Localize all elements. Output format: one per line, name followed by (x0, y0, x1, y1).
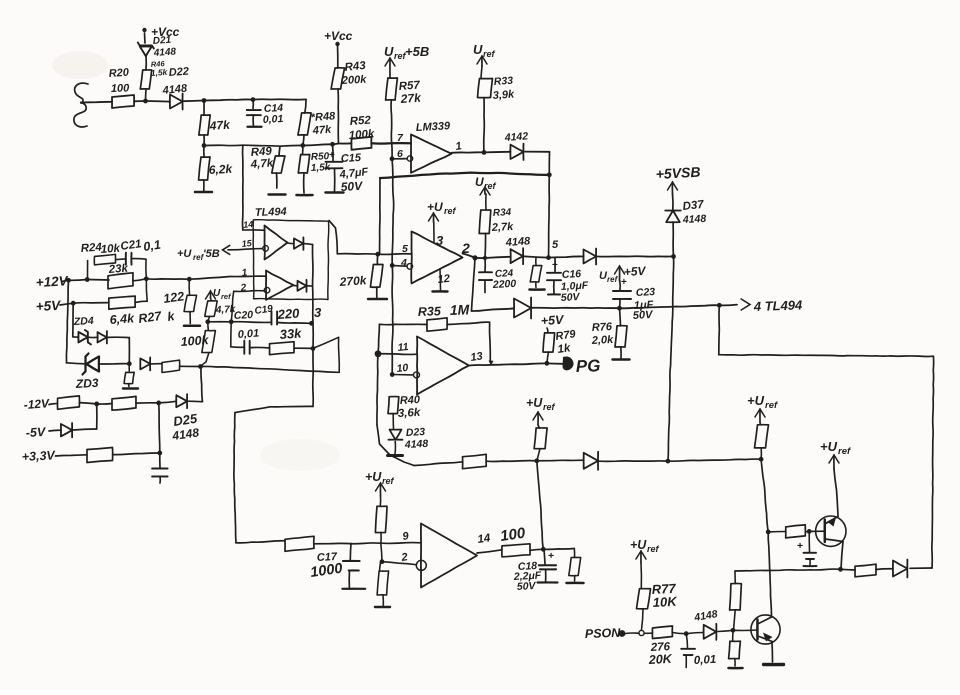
diode D pson (704, 625, 717, 639)
wire pin3 vertical (312, 245, 314, 323)
wire Q1 emitter down (841, 542, 843, 570)
capacitor C17 (349, 543, 352, 559)
wire LM339 out (452, 151, 485, 154)
arrow +Uref R77 (640, 551, 642, 563)
wire D21 to R46 (145, 56, 147, 70)
node pin2row4 junction (380, 559, 385, 564)
svg-text:4: 4 (400, 257, 407, 269)
node C14 junction (251, 97, 256, 102)
node C23 junction (617, 306, 622, 311)
wire ZD3 row (67, 363, 85, 364)
wire blob down (377, 354, 378, 425)
wire R77 down (642, 609, 644, 630)
wire pin1 (189, 276, 266, 279)
svg-text:2200: 2200 (492, 278, 517, 291)
capacitor C20 (243, 341, 245, 354)
svg-text:6,2k: 6,2k (208, 162, 233, 177)
wire y173 wavy (380, 173, 549, 178)
resistor -12V a (57, 396, 79, 409)
wire corner down ZD4 (128, 338, 130, 364)
capacitor bottom rail (159, 453, 161, 468)
diode internal 1 (288, 242, 295, 245)
resistor R52 (351, 137, 371, 150)
resistor R35 (427, 318, 447, 331)
svg-text:+Vcc: +Vcc (324, 29, 353, 43)
svg-text:100: 100 (111, 82, 131, 95)
wire row 47k to R49 (204, 144, 243, 146)
wire U5 out (477, 550, 502, 553)
diode D23 (390, 430, 402, 440)
ground below Q2base (729, 667, 743, 670)
resistor R77 (637, 589, 651, 609)
svg-text:2: 2 (461, 240, 470, 256)
wire pin3 vert lower (312, 323, 314, 348)
node 23k junction (144, 276, 149, 281)
svg-text:ref: ref (483, 49, 496, 59)
pin15 circle (263, 246, 269, 252)
resistor pullup9 (375, 506, 387, 532)
wire x761 down (761, 459, 768, 532)
pin 6 circle (407, 156, 412, 161)
diode D22 (170, 95, 183, 109)
wire pin13 out (469, 363, 547, 365)
wire riser x339 (338, 337, 341, 372)
svg-text:5: 5 (402, 243, 408, 255)
svg-text:+5V: +5V (540, 313, 565, 328)
svg-text:4148: 4148 (404, 438, 429, 451)
node base junction (807, 529, 812, 534)
svg-text:U: U (475, 175, 484, 189)
svg-text:ref: ref (607, 275, 619, 284)
ground C15 (326, 191, 344, 194)
wire D23 gnd (394, 442, 396, 454)
svg-text:-12V: -12V (23, 396, 50, 412)
resistor 100k (207, 322, 210, 331)
wire pin14 (243, 229, 265, 231)
svg-text:4 TL494: 4 TL494 (753, 297, 804, 314)
svg-text:122: 122 (162, 289, 185, 306)
wire loop to diode (910, 567, 932, 569)
ground D23 (388, 454, 403, 457)
capacitor C24 (484, 258, 486, 272)
wire pin3 to x235 (270, 405, 313, 408)
svg-text:ref: ref (838, 446, 851, 457)
svg-text:50V: 50V (340, 179, 363, 194)
wire Q1 collector up (834, 469, 838, 517)
diode D21 (138, 43, 154, 49)
node Q1 emitter junction (838, 567, 843, 572)
svg-text:200k: 200k (341, 74, 368, 87)
svg-text:50V: 50V (633, 309, 655, 322)
wire base (809, 530, 825, 532)
wire R35 left (379, 323, 427, 325)
ground R49 (269, 193, 286, 195)
ground 1k node5 (530, 288, 545, 291)
op-amp U2A LM339 (411, 135, 452, 173)
svg-text:D21: D21 (152, 35, 172, 47)
svg-text:33k: 33k (279, 325, 302, 342)
wire pullup to row543 (380, 533, 382, 544)
wire int1 out (304, 243, 313, 246)
transistor Q2 (751, 615, 780, 644)
resistor R48 (298, 113, 311, 135)
wire diag to 33k node (313, 337, 339, 348)
svg-text:10k: 10k (100, 243, 121, 256)
svg-text:ref: ref (221, 292, 232, 301)
svg-text:4142: 4142 (503, 130, 528, 144)
wire out2 down (472, 258, 476, 311)
svg-text:20K: 20K (647, 652, 673, 667)
wire pin11 (378, 353, 417, 356)
pin10 circle (414, 372, 420, 378)
arrow +Uref Q1 (833, 455, 835, 469)
wire corner up -5V (96, 404, 98, 429)
wire R57 to pin6 node (391, 100, 392, 159)
wire C20 to 33k (250, 346, 269, 349)
svg-text:50V: 50V (561, 291, 581, 304)
node pin3 junction (309, 321, 314, 326)
wire loop right (719, 355, 934, 357)
wire res to gnd (574, 576, 576, 582)
svg-text:11: 11 (397, 341, 409, 354)
ground 6,2k (195, 191, 212, 194)
resistor R46 (140, 70, 151, 89)
wire +3,3V (55, 455, 87, 456)
resistor R33 (478, 79, 493, 98)
svg-text:14: 14 (243, 219, 254, 230)
svg-text:2,0k: 2,0k (591, 334, 615, 347)
svg-text:C20: C20 (234, 309, 254, 322)
wire res to 100k node (180, 365, 201, 367)
wire int2 out (307, 285, 312, 287)
svg-text:+5V: +5V (623, 264, 646, 279)
wire vert461 down (537, 461, 544, 550)
resistor 100 out (502, 544, 530, 557)
wire curve to row461 (377, 425, 414, 466)
diode after ZD3 node (140, 358, 150, 369)
svg-text:3: 3 (314, 305, 322, 320)
wire U3 out (463, 254, 476, 258)
capacitor C19 (270, 312, 272, 325)
svg-text:0,01: 0,01 (237, 328, 259, 341)
svg-text:+: + (797, 540, 803, 552)
svg-text:+U: +U (630, 538, 647, 552)
wire curve to res461 (414, 462, 463, 466)
arrow +Uref U3 (433, 213, 435, 222)
wire pin5 row (337, 253, 378, 256)
wire pin6 (392, 158, 407, 160)
ground R50 (297, 194, 313, 197)
wire n2 to D25 (159, 401, 177, 403)
node A junction (143, 99, 148, 104)
svg-text:R76: R76 (592, 321, 614, 334)
arrow +Uref mid (379, 483, 381, 496)
wire -5V (49, 429, 61, 432)
node +5V junction (71, 301, 76, 306)
svg-text:PSON: PSON (585, 626, 622, 641)
diode D-mid 4148 (511, 249, 524, 263)
wire right riser (145, 259, 147, 279)
wire C14 node to R48 corner (253, 98, 306, 100)
wire loop down1 (718, 305, 721, 354)
svg-text:0,01: 0,01 (263, 113, 284, 126)
wire D308 to C23 (532, 307, 620, 309)
wire C23 to loop node (620, 305, 720, 308)
resistor Q1 base (786, 525, 806, 538)
resistor R24 (94, 254, 115, 265)
resistor 6,2k (203, 146, 205, 158)
svg-text:ref: ref (543, 402, 556, 412)
wire D25 up (189, 400, 203, 403)
diode ZD4b (98, 332, 107, 342)
svg-text:27k: 27k (399, 91, 422, 107)
component box below node (128, 364, 130, 373)
wire R20 to node (134, 100, 146, 102)
wire res b to n2 (136, 402, 159, 404)
node R48 junction (300, 143, 305, 148)
wire row308 left (472, 308, 515, 311)
wire res100 to C18 (530, 549, 543, 550)
wire +Vcc2 to R43 (337, 44, 339, 68)
wire to arrow 4TL494 (719, 304, 737, 307)
wire -12V (49, 403, 58, 406)
wire Uref to R34 (485, 194, 487, 210)
wire uref to res (379, 496, 381, 506)
node cap001 junction (684, 631, 689, 636)
node 47k junction (202, 143, 207, 148)
resistor +3,3V (87, 448, 113, 463)
svg-text:4148: 4148 (682, 213, 707, 226)
svg-text:U: U (384, 44, 394, 59)
wire 5VSB to D37 (672, 194, 674, 210)
resistor R-loop (855, 564, 876, 577)
wire row569 (735, 569, 841, 571)
svg-text:R43: R43 (344, 60, 367, 74)
wire 6,4k right (135, 301, 147, 302)
svg-text:14: 14 (477, 532, 492, 546)
svg-text:ref: ref (444, 206, 457, 216)
node D37 junction (671, 254, 676, 259)
node PSON (619, 630, 626, 637)
pson circle (639, 630, 644, 635)
resistor R57 (386, 78, 398, 100)
diode D37 (666, 211, 680, 223)
svg-text:LM339: LM339 (416, 120, 452, 134)
svg-text:13: 13 (470, 350, 484, 364)
pin2 circle TL494 (264, 287, 270, 293)
transistor Q1 (816, 516, 846, 546)
node ZD3 junction (127, 361, 132, 366)
wire row to R52 (303, 144, 333, 145)
wire pin2 down (231, 291, 234, 322)
svg-text:+U: +U (177, 248, 192, 260)
diode D-308 (514, 299, 531, 318)
wire pin10 (392, 374, 413, 376)
wire R48 to row (303, 135, 304, 145)
wire C19 to pin3 (278, 322, 312, 325)
error amp 1 (265, 226, 288, 260)
wire winding to R20 (81, 101, 112, 104)
resistor row461 (463, 454, 487, 468)
svg-text:C15: C15 (341, 152, 363, 165)
resistor above Q2base (734, 571, 736, 584)
wire R24 to C21 (116, 258, 127, 261)
capacitor Q1 base (808, 531, 810, 551)
arrow +5VSB (671, 182, 673, 194)
diode D row461 (584, 453, 598, 469)
arrow 4TL494 (741, 299, 750, 310)
svg-text:3: 3 (436, 233, 444, 248)
wire pson to circle (625, 632, 639, 634)
wire R34 down (484, 234, 487, 259)
wire pin2 row4 (382, 562, 416, 565)
arrow Uref+5B (389, 58, 391, 78)
wire res461 to node (486, 460, 537, 463)
wire row322 (208, 321, 231, 323)
wire out2 row (475, 257, 485, 259)
wire +5V rail down (72, 303, 74, 337)
node pin2row junction (229, 319, 234, 324)
op-amp U4 (pins 11/10) (417, 337, 469, 395)
wire ZD4 row (73, 336, 79, 338)
ground end row543 (567, 582, 584, 585)
wire 276 to node (673, 633, 687, 634)
wire Uref to R33 (481, 66, 482, 78)
resistor R49 (279, 146, 280, 156)
arrow Uref R33 (481, 56, 483, 66)
svg-text:0,1: 0,1 (142, 238, 161, 254)
svg-text:23k: 23k (107, 263, 129, 276)
node Q1 base junction (766, 530, 771, 535)
node pin11 blob (375, 350, 382, 357)
svg-text:ref: ref (382, 476, 395, 486)
op-amp U3 (pins 5/4) (411, 232, 462, 284)
wire pin2 (234, 290, 264, 293)
resistor R40 (388, 397, 399, 414)
ground small box (123, 387, 138, 389)
node R33 junction (482, 150, 487, 155)
svg-text:1M: 1M (450, 301, 470, 318)
wire n1 to res b (97, 403, 112, 406)
node +12V junction (66, 278, 71, 283)
node R79 junction (545, 361, 550, 366)
svg-text:270k: 270k (338, 273, 368, 289)
resistor 270k (376, 254, 378, 264)
svg-text:*R48: *R48 (310, 110, 336, 124)
wire C21 to corner (132, 258, 146, 261)
wire Dmid to node5 (525, 256, 549, 257)
wire C18 node right (543, 548, 574, 551)
node C18 junction (541, 547, 546, 552)
node n3 junction (157, 451, 162, 456)
resistor pullup right (755, 425, 769, 448)
resistor 6,4k (109, 296, 135, 309)
wire -5V diode to corner (74, 429, 97, 430)
node 33k junction (311, 346, 316, 351)
wire pin4 (392, 264, 407, 267)
wire R52 to pin7 (372, 142, 411, 145)
arrow C23 (619, 266, 621, 281)
svg-text:R34: R34 (493, 207, 512, 219)
resistor 276 (652, 626, 672, 639)
wire to uref right (668, 459, 761, 461)
wire +5V row (73, 302, 109, 305)
resistor below Q2base (732, 633, 734, 641)
resistor R34 (479, 210, 491, 234)
node B junction (202, 98, 207, 103)
IC TL494 box (253, 220, 329, 300)
node 100k junction (198, 364, 203, 369)
wire row543 b (314, 542, 381, 545)
svg-text:R20: R20 (108, 67, 130, 80)
wire uref461 to res (538, 425, 540, 428)
wire D3 to D37 node (598, 255, 674, 257)
arrow +Uref 461 (537, 412, 539, 425)
flag PG (563, 357, 574, 371)
wire node to D pson (686, 633, 704, 634)
node pin10 junction (390, 372, 395, 377)
svg-text:4,7k: 4,7k (249, 157, 274, 171)
svg-text:ZD4: ZD4 (73, 315, 95, 328)
resistor R43 (331, 68, 345, 89)
capacitor C14 (252, 100, 254, 109)
svg-text:100k: 100k (180, 333, 210, 349)
wire circle to R276 (644, 632, 653, 634)
resistor 47k (203, 101, 205, 116)
svg-text:3,6k: 3,6k (398, 407, 422, 420)
svg-text:+U: +U (820, 439, 838, 454)
node C24 junction (483, 256, 487, 260)
node loop junction (717, 303, 722, 308)
svg-text:R35: R35 (418, 304, 442, 319)
wire 33k to pin3v (294, 347, 313, 349)
wire long vertical x392 (392, 159, 394, 375)
resistor R76 (620, 308, 621, 326)
resistor 33k (270, 342, 295, 355)
ground 122 (184, 324, 200, 327)
wire row347 (231, 346, 244, 349)
diode D-top 4142 (510, 145, 523, 159)
svg-text:+U: +U (526, 396, 543, 410)
svg-text:R40: R40 (400, 394, 422, 407)
node out2 junction (472, 255, 477, 260)
node Q2 base junction (731, 628, 736, 633)
wire ZD4b to corner (107, 336, 129, 338)
node 270k junction (375, 252, 380, 257)
svg-text:TL494: TL494 (255, 206, 287, 219)
wire corner down right (573, 549, 575, 558)
svg-text:C16: C16 (562, 268, 582, 281)
svg-text:1,5k: 1,5k (150, 67, 168, 78)
resistor pullup461 (534, 428, 547, 449)
wire R33 to node (483, 98, 486, 153)
svg-text:-5V: -5V (25, 425, 47, 440)
wire ZD3 to node (99, 363, 129, 365)
svg-text:+: + (548, 550, 554, 562)
wire row543 to pin2row (381, 543, 382, 562)
resistor below pin2row (380, 562, 381, 571)
ground Q2 (764, 663, 784, 666)
wire +12V rail down (66, 280, 68, 363)
svg-text:R52: R52 (349, 115, 371, 128)
svg-text:+: + (329, 150, 335, 161)
svg-text:100: 100 (499, 525, 527, 545)
svg-text:47k: 47k (208, 118, 231, 134)
capacitor C15 (332, 144, 335, 161)
svg-text:10: 10 (396, 362, 409, 375)
diode internal 2 (294, 285, 298, 287)
node pullupR junction (759, 457, 764, 462)
